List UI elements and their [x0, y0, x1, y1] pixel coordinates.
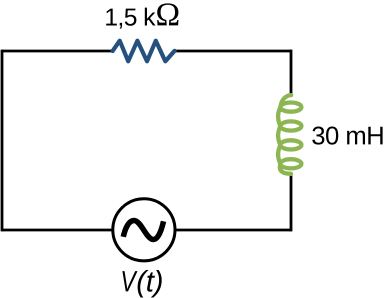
wire right upper segment: [290, 50, 293, 96]
AC source V circle: [113, 199, 175, 261]
AC source sine symbol: [123, 221, 163, 240]
source label V(t): [122, 271, 137, 291]
resistor value label 1,5 kOhm: [106, 9, 117, 26]
wire bottom-left segment: [2, 229, 112, 232]
wire right lower segment: [290, 174, 293, 231]
resistor R zigzag: [113, 41, 175, 62]
wire top-right segment: [175, 50, 291, 53]
inductor value label 30 mH: [312, 127, 324, 145]
wire top-left segment: [2, 50, 113, 53]
inductor L coil: [278, 95, 301, 174]
wire left side: [1, 50, 4, 232]
wire bottom-right segment: [176, 229, 291, 232]
